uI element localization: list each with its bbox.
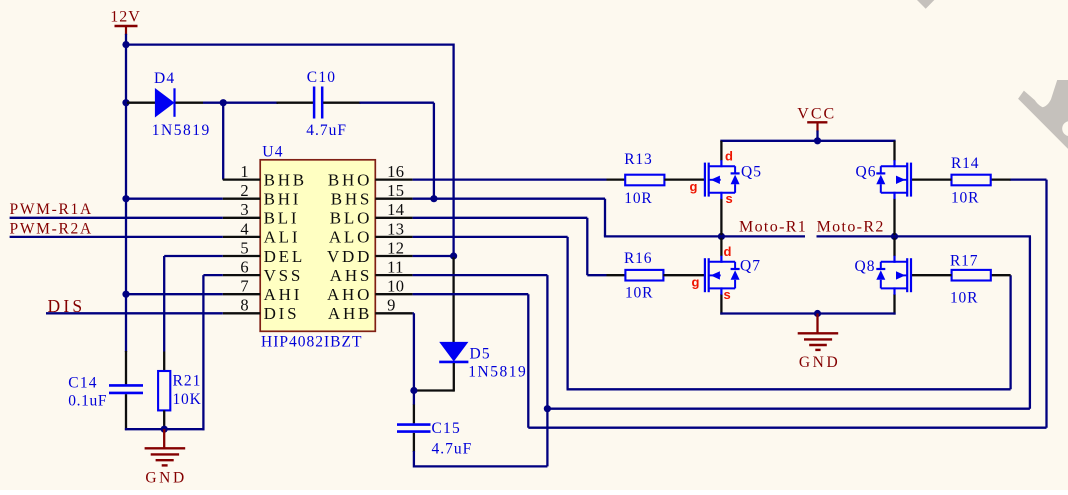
junction AHB node bbox=[410, 387, 417, 394]
wire AHI branch bbox=[126, 293, 223, 295]
resistor R16 bbox=[624, 250, 663, 301]
svg-text:4.7uF: 4.7uF bbox=[306, 122, 347, 139]
svg-text:R16: R16 bbox=[624, 250, 652, 267]
wire C15 bottom corner bbox=[413, 451, 415, 468]
diode D4 cathode pin bbox=[176, 102, 204, 104]
diode D5 bbox=[439, 342, 527, 381]
wire BHB vertical bbox=[222, 103, 224, 180]
resistor R21 bbox=[158, 371, 201, 410]
capacitor C15 top pin bbox=[413, 405, 415, 424]
svg-text:R14: R14 bbox=[951, 155, 979, 172]
svg-text:GND: GND bbox=[799, 354, 840, 371]
transistor Q5 bbox=[690, 149, 762, 207]
wire BHB node to C10 bbox=[223, 102, 278, 104]
resistor R21 bottom pin bbox=[163, 410, 165, 430]
svg-text:13: 13 bbox=[387, 219, 404, 238]
resistor R16 left pin bbox=[607, 274, 626, 276]
pin 11 AHS bbox=[330, 258, 413, 285]
ground GND right bbox=[798, 314, 841, 371]
svg-text:VCC: VCC bbox=[797, 105, 836, 122]
junction VCC bbox=[814, 137, 821, 144]
wire AHO loop bbox=[413, 293, 529, 295]
svg-text:5: 5 bbox=[240, 238, 248, 257]
wire C15 bottom link bbox=[414, 465, 548, 467]
transistor Q8 source pin bbox=[893, 294, 895, 315]
decor bbox=[917, 0, 1068, 149]
svg-text:R13: R13 bbox=[624, 151, 652, 168]
pin 16 BHO bbox=[328, 162, 413, 189]
junction AHI 12V bbox=[122, 291, 129, 298]
svg-text:Moto-R1: Moto-R1 bbox=[739, 219, 807, 236]
svg-text:14: 14 bbox=[387, 200, 404, 219]
svg-text:Q7: Q7 bbox=[740, 258, 761, 275]
svg-text:HIP4082IBZT: HIP4082IBZT bbox=[261, 334, 362, 351]
svg-text:BLO: BLO bbox=[330, 209, 372, 228]
svg-text:g: g bbox=[690, 179, 698, 194]
wire 12V top rail bbox=[125, 43, 454, 45]
svg-text:1N5819: 1N5819 bbox=[468, 363, 527, 380]
resistor R13 bbox=[624, 151, 664, 207]
svg-text:BHO: BHO bbox=[328, 170, 372, 189]
svg-text:0.1uF: 0.1uF bbox=[68, 392, 107, 409]
svg-text:6: 6 bbox=[240, 258, 248, 277]
svg-text:1N5819: 1N5819 bbox=[152, 122, 211, 139]
svg-text:10K: 10K bbox=[173, 391, 202, 408]
pin 12 VDD bbox=[327, 238, 413, 265]
capacitor C10 bbox=[306, 69, 347, 139]
junction ground right bbox=[814, 310, 821, 317]
pin 6 VSS bbox=[223, 258, 303, 285]
svg-text:PWM-R1A: PWM-R1A bbox=[10, 201, 93, 218]
wire DEL to R21 bbox=[164, 255, 223, 257]
op-amp U4 HIP4082IBZT body bbox=[260, 144, 375, 351]
svg-text:10R: 10R bbox=[624, 190, 652, 207]
resistor R21 top pin bbox=[163, 352, 165, 372]
svg-text:BLI: BLI bbox=[264, 209, 300, 228]
transistor Q6 bbox=[856, 160, 912, 199]
wire PWM-R2A bbox=[10, 236, 223, 238]
capacitor C14 bbox=[68, 374, 143, 409]
junction BHB node bbox=[220, 99, 227, 106]
svg-text:7: 7 bbox=[240, 277, 248, 296]
pin 8 DIS bbox=[223, 296, 300, 323]
wire Moto-R2 rail bbox=[817, 235, 1032, 237]
svg-text:d: d bbox=[725, 149, 733, 164]
svg-text:BHS: BHS bbox=[331, 190, 372, 209]
power 12V bbox=[110, 8, 141, 35]
svg-text:10R: 10R bbox=[625, 284, 653, 301]
capacitor C15 bbox=[397, 420, 472, 457]
svg-text:VDD: VDD bbox=[327, 247, 372, 266]
svg-text:15: 15 bbox=[387, 181, 404, 200]
pin 4 ALI bbox=[223, 219, 301, 246]
capacitor C15 bottom pin bbox=[413, 433, 415, 452]
wire AHS down bbox=[413, 274, 548, 276]
diode D4 bbox=[152, 70, 211, 139]
svg-text:1: 1 bbox=[240, 162, 248, 181]
svg-text:Moto-R2: Moto-R2 bbox=[817, 219, 885, 236]
svg-text:3: 3 bbox=[240, 200, 248, 219]
svg-text:PWM-R2A: PWM-R2A bbox=[10, 220, 93, 237]
wire AHB down bbox=[413, 312, 414, 314]
wire VCC stem bbox=[816, 131, 818, 141]
pin 15 BHS bbox=[331, 181, 413, 208]
pin 5 DEL bbox=[223, 238, 305, 265]
junction BHS C10 bbox=[430, 195, 437, 202]
transistor Q6 drain pin bbox=[893, 141, 895, 161]
wire BHI branch bbox=[126, 198, 223, 200]
wire VDD stub bbox=[413, 255, 454, 257]
transistor Q7 drain pin bbox=[720, 238, 722, 256]
svg-text:VSS: VSS bbox=[264, 266, 304, 285]
svg-text:R17: R17 bbox=[950, 253, 978, 270]
pin 1 BHB bbox=[223, 162, 307, 189]
capacitor C14 top pin bbox=[125, 351, 127, 384]
pin 3 BLI bbox=[223, 200, 300, 227]
junction D4 anode bbox=[122, 99, 129, 106]
diode D5 anode pin bbox=[452, 257, 454, 342]
capacitor C10 left pin bbox=[277, 102, 314, 104]
svg-text:s: s bbox=[726, 191, 733, 206]
svg-text:10R: 10R bbox=[950, 290, 978, 307]
svg-text:DEL: DEL bbox=[264, 247, 305, 266]
svg-text:BHB: BHB bbox=[264, 170, 307, 189]
junction VDD bbox=[450, 252, 457, 259]
svg-text:16: 16 bbox=[387, 162, 404, 181]
junction Moto-R1 bbox=[718, 233, 725, 240]
svg-text:8: 8 bbox=[240, 296, 248, 315]
svg-text:C15: C15 bbox=[432, 420, 461, 437]
resistor R14 right pin bbox=[991, 178, 1011, 180]
capacitor C10 right pin bbox=[323, 102, 360, 104]
svg-text:Q6: Q6 bbox=[856, 164, 877, 181]
svg-text:2: 2 bbox=[240, 181, 248, 200]
svg-text:C10: C10 bbox=[307, 69, 336, 86]
pin 9 AHB bbox=[328, 296, 413, 323]
diode D5 cathode pin bbox=[453, 363, 455, 392]
wire AHS to Moto-R2 bbox=[547, 408, 1030, 410]
svg-text:AHS: AHS bbox=[330, 266, 372, 285]
pin 7 AHI bbox=[223, 277, 302, 304]
junction BHI 12V bbox=[122, 195, 129, 202]
svg-text:D4: D4 bbox=[154, 70, 175, 87]
wire Moto-R1 rail bbox=[604, 235, 805, 237]
wire C10 to BHS bbox=[360, 102, 434, 104]
svg-text:4: 4 bbox=[240, 219, 248, 238]
svg-text:R21: R21 bbox=[173, 372, 202, 389]
wire VCC rail bbox=[720, 140, 895, 142]
transistor Q7 source pin bbox=[720, 294, 722, 315]
pin 2 BHI bbox=[223, 181, 301, 208]
pin 14 BLO bbox=[330, 200, 413, 227]
wire VSS down bbox=[203, 274, 222, 276]
wire 12V right drop to VDD bbox=[452, 44, 454, 257]
transistor Q5 drain pin bbox=[720, 141, 722, 161]
wire DIS bbox=[46, 312, 223, 314]
resistor R14 bbox=[951, 155, 991, 206]
resistor R17 left pin to Q8 gate bbox=[910, 274, 951, 276]
svg-text:ALI: ALI bbox=[264, 228, 301, 247]
pin 13 ALO bbox=[329, 219, 413, 246]
svg-text:9: 9 bbox=[387, 296, 396, 315]
svg-text:11: 11 bbox=[387, 258, 404, 277]
transistor Q7 bbox=[692, 244, 761, 302]
svg-text:U4: U4 bbox=[262, 144, 283, 161]
svg-text:4.7uF: 4.7uF bbox=[432, 441, 473, 458]
resistor R13 left pin bbox=[607, 178, 626, 180]
svg-text:Q5: Q5 bbox=[741, 164, 762, 181]
wire 12V stem bbox=[125, 34, 127, 46]
wire BHS to Moto-R1 bbox=[413, 198, 605, 200]
diode D4 anode pin bbox=[127, 102, 155, 104]
svg-text:Q8: Q8 bbox=[855, 258, 876, 275]
svg-text:d: d bbox=[724, 244, 732, 259]
junction ground left bbox=[161, 426, 168, 433]
wire ground rail left bbox=[125, 428, 205, 430]
resistor R16 right pin to Q7 gate bbox=[663, 274, 705, 276]
svg-text:10R: 10R bbox=[951, 190, 979, 207]
transistor Q6 source pin bbox=[893, 199, 895, 235]
wire PWM-R1A bbox=[10, 217, 223, 219]
svg-text:DIS: DIS bbox=[264, 304, 300, 323]
resistor R14 left pin to Q6 gate bbox=[910, 178, 951, 180]
svg-text:AHO: AHO bbox=[327, 285, 372, 304]
junction AHS bbox=[544, 405, 551, 412]
svg-text:C14: C14 bbox=[68, 374, 97, 391]
svg-text:12V: 12V bbox=[110, 8, 141, 25]
transistor Q5 source pin bbox=[720, 199, 722, 235]
svg-text:D5: D5 bbox=[470, 345, 491, 362]
wire 12V left vertical bbox=[125, 45, 127, 352]
wire ALO to R17 bbox=[413, 236, 568, 238]
svg-text:10: 10 bbox=[387, 277, 404, 296]
svg-text:ALO: ALO bbox=[329, 228, 372, 247]
power VCC bbox=[797, 105, 836, 131]
pin 10 AHO bbox=[327, 277, 413, 304]
resistor R13 right pin to Q5 gate bbox=[664, 178, 705, 180]
svg-text:g: g bbox=[692, 275, 700, 290]
svg-text:AHB: AHB bbox=[328, 304, 372, 323]
svg-text:s: s bbox=[724, 287, 731, 302]
capacitor C14 bottom pin bbox=[125, 394, 127, 430]
svg-text:BHI: BHI bbox=[264, 190, 302, 209]
junction Moto-R2 bbox=[891, 233, 898, 240]
ground GND left bbox=[145, 429, 187, 486]
transistor Q8 bbox=[855, 256, 912, 295]
svg-text:AHI: AHI bbox=[264, 285, 303, 304]
wire D4 to C10 node bbox=[203, 102, 224, 104]
svg-text:GND: GND bbox=[145, 469, 186, 486]
wire BLO to R16 bbox=[413, 217, 588, 219]
wire BHO to R13 bbox=[413, 178, 607, 180]
wire ground rail right bbox=[720, 312, 895, 314]
resistor R17 right pin bbox=[991, 274, 1011, 276]
transistor Q8 drain pin bbox=[893, 238, 895, 256]
svg-text:12: 12 bbox=[387, 238, 404, 257]
resistor R17 bbox=[950, 253, 991, 307]
junction 12V rail bbox=[122, 41, 129, 48]
